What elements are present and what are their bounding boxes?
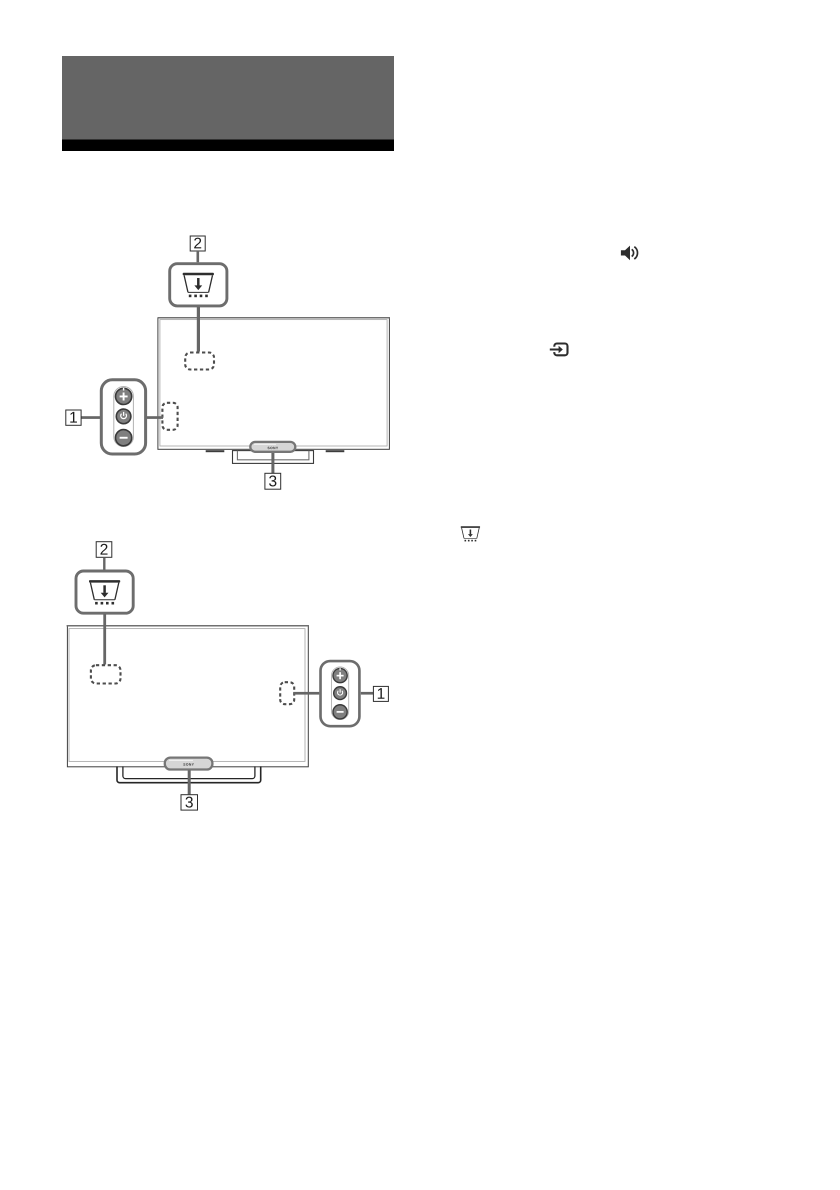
U-shaped stand (diagram 2) — [117, 766, 261, 782]
wire label2 to sensor callout (diagram 2) — [103, 557, 105, 569]
sensor icon (diagram 1) — [183, 273, 214, 297]
small sensor icon (inline) — [461, 526, 480, 541]
dashed side-button area (diagram 1) — [162, 403, 177, 430]
TV outline (diagram 2) — [67, 626, 309, 767]
control panel buttons (diagram 2) — [321, 661, 360, 726]
control panel buttons (diagram 1) — [101, 380, 145, 454]
TV outline (diagram 1) — [158, 318, 390, 450]
TV feet (diagram 1) — [206, 450, 345, 452]
label 2 box (diagram 1) — [190, 236, 205, 251]
label 3 box (diagram 2) — [181, 795, 198, 810]
dashed remote sensor area (diagram 2) — [91, 665, 121, 683]
wire label1 to panel (diagram 1) — [81, 416, 100, 419]
wire callout to dashed sensor area (diagram 1) — [197, 307, 200, 352]
SONY logo badge (diagram 1) — [250, 442, 295, 452]
pedestal stand (diagram 1) — [233, 451, 314, 464]
wire label2 to sensor callout (diagram 1) — [197, 251, 200, 262]
sensor callout box (diagram 2) — [76, 571, 133, 613]
wire dashed area to panel (diagram 2) — [293, 692, 319, 695]
label 1 box (diagram 1) — [66, 410, 81, 425]
dashed side-button area (diagram 2) — [280, 682, 294, 704]
wire badge to label3 (diagram 1) — [271, 453, 274, 474]
input select icon — [550, 344, 568, 356]
header black bar — [62, 140, 394, 152]
header gray title block — [62, 56, 394, 140]
wire badge to label3 (diagram 2) — [188, 771, 191, 795]
sensor icon (diagram 2) — [89, 580, 120, 604]
dashed remote sensor area (diagram 1) — [185, 353, 214, 370]
wire callout to dashed sensor area (diagram 2) — [103, 614, 106, 664]
SONY logo badge (diagram 2) — [165, 758, 213, 770]
label 3 box (diagram 1) — [265, 473, 281, 489]
label 2 box (diagram 2) — [96, 542, 112, 558]
sensor callout box (diagram 1) — [170, 264, 227, 306]
speaker / volume icon — [621, 246, 638, 261]
wire panel to dashed area (diagram 1) — [147, 416, 164, 419]
wire panel to label1 (diagram 2) — [361, 692, 374, 695]
label 1 box (diagram 2) — [373, 686, 388, 701]
